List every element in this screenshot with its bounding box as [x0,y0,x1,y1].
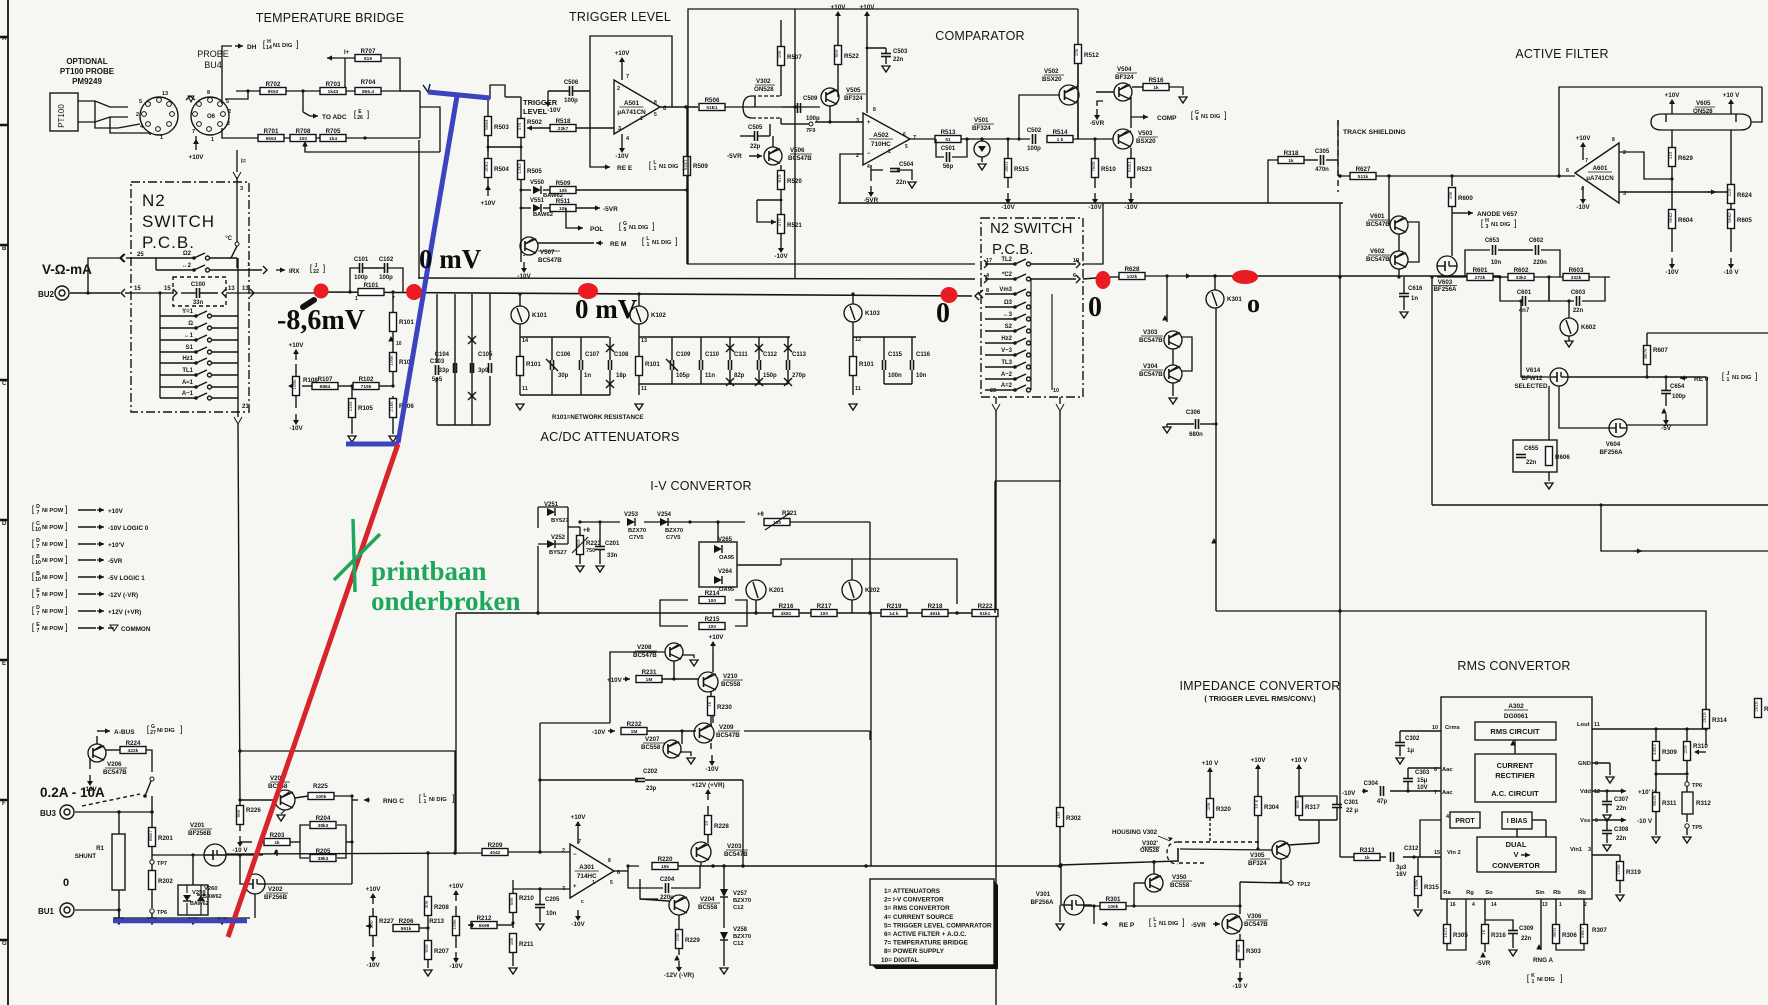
svg-text:15k: 15k [661,864,669,870]
resistor R628 [1119,273,1145,280]
svg-text:BAW62: BAW62 [190,901,209,907]
svg-text:N1 DIG: N1 DIG [273,43,293,49]
svg-text:R222: R222 [978,603,993,610]
wire a501 out [660,106,698,108]
transistor V205 [275,790,295,810]
svg-text:]: ] [323,263,326,273]
zener V258 [720,932,728,940]
svg-text:]: ] [452,793,455,803]
resistor R518 [550,125,576,132]
fet V202 [245,874,265,894]
transistor V602 [1390,251,1408,269]
thermistor R223 [577,536,584,555]
svg-text:C104: C104 [435,352,450,358]
capacitor C301 [1332,804,1342,806]
svg-text:3: 3 [240,186,243,192]
wire af branch end [1767,550,1768,552]
ground r315 [1414,910,1422,916]
resistor R514 [1047,136,1073,143]
svg-text:N1 DIG: N1 DIG [659,164,679,170]
svg-text:R203: R203 [270,832,285,839]
wire k101 toprail [520,336,609,338]
svg-text:C307: C307 [1614,797,1629,803]
svg-text:N1 DIG: N1 DIG [1159,921,1179,927]
svg-text:-10 V: -10 V [1232,983,1248,990]
annotation red trace [228,444,398,937]
ground c307 [1603,815,1611,821]
node j1 [246,89,249,92]
svg-text:7: 7 [37,611,40,617]
svg-text:]: ] [296,39,299,49]
svg-text:R210: R210 [519,895,534,902]
svg-text:33n: 33n [607,553,618,559]
svg-text:R708: R708 [296,128,311,135]
svg-text:]: ] [180,724,183,734]
ground v205 [281,810,285,814]
resistor R523 [1128,159,1135,178]
svg-text:C: C [2,381,7,387]
svg-text:15: 15 [164,286,171,292]
svg-text:[: [ [1481,218,1484,228]
annotation red dot 4 [941,287,958,303]
svg-text:+θ: +θ [757,512,764,518]
wire attn col3 [489,294,491,360]
legend box [872,881,998,969]
svg-text:BY527: BY527 [551,518,569,524]
svg-text:710HC: 710HC [871,141,891,148]
svg-text:R219: R219 [887,603,902,610]
svg-text:+10V: +10V [615,50,631,57]
svg-text:V501: V501 [974,117,989,124]
svg-text:R509: R509 [693,163,708,170]
svg-text:R319: R319 [1626,869,1641,876]
svg-text:BU3: BU3 [40,809,57,818]
svg-text:51E1: 51E1 [1127,161,1133,173]
label anode v657 [1465,212,1473,214]
svg-text:A601: A601 [1593,165,1608,172]
svg-text:V614: V614 [1526,367,1541,374]
box N2 SWITCH PCB right [981,218,1083,397]
wire k102 toprail [639,336,790,338]
svg-text:[: [ [32,605,35,615]
svg-text:-5V: -5V [1661,425,1672,432]
svg-text:590: 590 [1295,800,1301,808]
svg-text:PT100: PT100 [57,104,66,128]
svg-text:V203: V203 [727,843,742,850]
svg-text:5: 5 [905,144,908,150]
capacitor C106x [488,363,490,373]
svg-text:]: ] [65,605,68,615]
svg-text:0: 0 [63,877,69,889]
resistor R101 k1 [517,357,524,376]
wire af left edge [1431,277,1433,505]
svg-text:μA741CN: μA741CN [617,109,646,116]
svg-text:270p: 270p [792,373,806,379]
capacitor C504 [890,168,900,170]
svg-text:2: 2 [562,848,565,854]
svg-text:R303: R303 [1246,948,1261,955]
svg-text:15: 15 [134,286,141,292]
svg-text:+10V: +10V [449,883,465,890]
svg-text:BU1: BU1 [38,907,55,916]
terminal BU3 [60,805,74,819]
svg-text:C205: C205 [545,897,560,903]
svg-text:V605: V605 [1696,100,1711,107]
wire a601 pin3 [1619,191,1727,193]
svg-text:2: 2 [228,109,231,115]
svg-text:N1 DIG: N1 DIG [652,240,672,246]
wire rect arrow [1514,740,1516,754]
svg-text:272k: 272k [1475,275,1486,281]
svg-text:100p: 100p [564,98,578,104]
svg-text:ANODE V657: ANODE V657 [1477,211,1518,218]
ground c302 [1396,758,1404,764]
connector BU4 socket A [140,97,178,135]
svg-text:R228: R228 [714,823,729,830]
svg-text:+10V: +10V [1251,757,1267,764]
svg-text:100: 100 [773,520,781,526]
wire r203 r204 [240,841,252,843]
svg-text:2: 2 [1623,150,1626,156]
svg-text:Ω3: Ω3 [1004,300,1013,306]
svg-text:V253: V253 [624,512,639,518]
svg-text:-10V: -10V [774,253,788,260]
svg-text:7: 7 [37,628,40,634]
wire bus box right [226,292,249,294]
wire comp to shield [1268,160,1279,203]
svg-text:3k01: 3k01 [1004,161,1010,172]
svg-text:5: 5 [654,112,657,118]
fet V301 [1064,895,1084,915]
svg-text:1: 1 [888,149,891,155]
svg-text:R704: R704 [361,79,376,86]
svg-text:5: 5 [610,880,613,886]
transistor V306 [1222,914,1242,934]
svg-text:3= RMS CONVERTOR: 3= RMS CONVERTOR [884,905,950,912]
svg-text:G: G [2,941,7,947]
power -5V c654 [1665,414,1667,420]
svg-text:C12: C12 [733,905,744,911]
tube v302b bar [1177,848,1179,862]
svg-text:V602: V602 [1370,248,1385,255]
power -10V v507 [523,262,525,268]
svg-text:Ω2: Ω2 [183,251,192,257]
resistor R314 [1703,710,1710,729]
svg-text:V604: V604 [1606,441,1621,448]
box PROT [1450,812,1480,828]
capacitor C502 [1032,134,1034,144]
resistor R214 [699,597,725,604]
wire v303 branch [1166,276,1168,322]
capacitor C104 [453,363,455,373]
svg-text:BFW12: BFW12 [1522,375,1544,382]
ground c503 [882,66,890,72]
resistor R624 [1728,185,1735,204]
svg-text:RNG A: RNG A [1533,957,1554,964]
svg-text:TO ADC: TO ADC [322,114,347,121]
wire r210 col [512,880,514,889]
svg-text:6864: 6864 [320,384,331,390]
svg-text:V603: V603 [1438,279,1453,286]
svg-text:8k25: 8k25 [1652,795,1658,806]
terminal BU2 [55,286,69,300]
switch row A~1 [160,397,196,399]
wire sin down [1540,899,1542,950]
capacitor C503 [881,53,891,55]
svg-text:I=: I= [241,159,247,165]
switch row O2 [192,256,196,260]
resistor R522 [835,46,842,65]
resistor R107 [312,383,338,390]
svg-text:R101=NETWORK RESISTANCE: R101=NETWORK RESISTANCE [552,414,644,421]
resistor R708 [290,135,316,142]
annotation red dot 3 [578,283,598,299]
resistor R511 [550,205,576,212]
capacitor C304 [1380,786,1382,796]
svg-text:8: 8 [1595,761,1598,767]
svg-text:13: 13 [641,338,647,344]
svg-text:C506: C506 [564,80,579,86]
trimmer x2 [468,392,476,400]
trimmer c112 [755,344,763,352]
resistor R607 [1644,346,1651,365]
label RE O [1680,377,1687,379]
svg-text:0 mV: 0 mV [575,294,638,324]
capacitor C655 [1516,454,1526,456]
svg-text:10V: 10V [1417,785,1428,791]
svg-text:51k1: 51k1 [980,611,991,617]
wire temp sense down [236,150,238,172]
svg-text:56k2: 56k2 [1668,212,1674,223]
resistor R627 [1350,173,1376,180]
svg-text:BC547B: BC547B [788,155,812,162]
annotation black tick [303,300,314,307]
node r503/r502 join [488,146,521,148]
svg-text:HOUSING V302: HOUSING V302 [1112,829,1158,836]
wire r600 col [1451,176,1453,186]
svg-text:10k: 10k [1448,191,1454,199]
svg-text:[: [ [32,504,35,514]
power -10V r604 [1671,258,1673,264]
annotation red dot 6 [1232,270,1258,284]
svg-text:C653: C653 [1485,238,1500,244]
wire c101 loop [350,268,359,292]
opamp A301 [570,844,614,898]
svg-text:BZX70: BZX70 [628,528,646,534]
svg-text:BY527: BY527 [549,550,567,556]
capacitor C105 [470,363,472,373]
tube V302 [743,96,752,118]
resistor R629 [1669,148,1676,167]
ground v258 [720,968,728,974]
diode V259 [183,895,191,901]
resistor R312 [1682,792,1693,814]
svg-text:R516: R516 [1149,77,1164,84]
svg-text:C113: C113 [792,352,807,358]
svg-text:ON528: ON528 [1693,108,1713,115]
wire ibias dual [1516,829,1518,837]
svg-text:1: 1 [1154,923,1157,929]
svg-text:10 k: 10 k [1254,799,1260,809]
svg-text:V258: V258 [733,927,748,933]
svg-text:R701: R701 [264,128,279,135]
wire v202 drain [265,883,352,885]
wire k301 to rms [1216,611,1706,705]
svg-text:C202: C202 [643,769,658,775]
wire bus entry [70,292,120,294]
wire c655 box [1548,386,1550,440]
svg-text:Vin 2: Vin 2 [1447,850,1461,856]
svg-text:10k: 10k [1074,48,1080,56]
svg-text:TP7: TP7 [157,861,167,867]
resistor R520 [778,171,785,190]
svg-text:7: 7 [913,135,916,141]
power -10V v206 [89,775,91,781]
ground r311 [1652,837,1660,843]
svg-text:C305: C305 [1315,149,1330,155]
wire a601 pin2 [1619,152,1672,179]
wire iv left col [455,613,457,852]
svg-text:R509: R509 [556,180,571,187]
svg-text:OA95: OA95 [719,555,735,561]
wire iv toprow [580,521,620,523]
svg-text:-10V: -10V [366,962,380,969]
svg-text:-5VR: -5VR [1090,120,1105,127]
wire rng c [352,799,358,801]
connector PT100 probe box [50,93,78,131]
svg-text:BC547B: BC547B [538,257,562,264]
wire r518 row [533,127,550,129]
resistor R204 [310,822,336,829]
svg-text:NI POW: NI POW [42,558,64,564]
svg-text:C302: C302 [1405,736,1420,742]
wire r314 r310 [1698,751,1706,753]
svg-text:BC547B: BC547B [1139,337,1163,344]
svg-text:K102: K102 [651,312,666,319]
capacitor C501 [946,152,948,162]
svg-text:-5VR: -5VR [1476,960,1491,967]
svg-text:[: [ [642,236,645,246]
svg-text:R101: R101 [364,282,379,289]
testpoint K602 [1560,318,1578,336]
svg-text:220: 220 [1683,745,1689,753]
svg-text:+10V: +10V [108,508,124,515]
svg-text:BC547B: BC547B [103,769,127,776]
svg-text:BC558: BC558 [721,681,741,688]
capacitor C101 [359,263,361,273]
svg-text:22p: 22p [750,144,761,150]
svg-text:105p: 105p [676,373,690,379]
fet V614 [1550,368,1568,386]
ground v208 [690,660,698,666]
svg-text:-5VR: -5VR [603,206,618,213]
svg-text:R105: R105 [358,405,373,412]
zener V257 [720,889,728,897]
wire v305 e [1280,859,1282,882]
switch row Ω [160,327,196,329]
switch row TL3 [985,366,1015,368]
svg-text:R605: R605 [1737,217,1752,224]
svg-text:R506: R506 [705,97,720,104]
switch row S2 [985,330,1015,332]
svg-text:+10 V: +10 V [1202,760,1219,767]
svg-text:R703: R703 [326,81,341,88]
capacitor C616 [1399,293,1409,295]
diode V254 [660,518,668,526]
wire iv rail [456,612,995,614]
resistor R510 [1092,159,1099,178]
svg-text:R511: R511 [556,198,571,205]
opamp A601 [1575,143,1619,203]
svg-text:+10V: +10V [1576,135,1592,142]
svg-text:R601: R601 [1473,267,1488,274]
resistor R507 [778,47,785,66]
svg-text:−: − [573,852,577,858]
wire tube out [782,106,820,108]
box v265 [699,542,737,587]
svg-text:8: 8 [873,107,876,113]
resistor R227 [370,917,377,936]
svg-text:TEMPERATURE BRIDGE: TEMPERATURE BRIDGE [256,11,405,25]
svg-text:R304: R304 [1264,804,1279,811]
wire tl2 line [687,263,975,265]
svg-text:1: 1 [211,137,214,143]
capacitor C115 [882,360,884,370]
svg-text:100p: 100p [354,275,368,281]
svg-text:]: ] [1182,917,1185,927]
switch row A≈1 [160,386,196,388]
svg-text:R313: R313 [1360,847,1375,854]
wire k102 botrail [639,383,788,385]
svg-text:C602: C602 [1529,238,1544,244]
svg-text:C115: C115 [888,352,903,358]
svg-text:V209: V209 [719,724,734,731]
svg-text:BF256A: BF256A [1030,899,1054,906]
svg-text:10: 10 [35,560,41,566]
power -10V r523 [1130,193,1132,199]
resistor R306 [1553,925,1560,944]
svg-text:NI POW: NI POW [42,609,64,615]
svg-text:V202: V202 [268,886,283,893]
resistor R215 [699,623,725,630]
capacitor C108 [608,360,610,370]
svg-text:GND: GND [1578,761,1591,767]
node j2 [301,89,304,92]
svg-text:E: E [2,661,6,667]
svg-text:23k7: 23k7 [558,126,569,132]
svg-text:R306: R306 [1562,932,1577,939]
svg-text:C301: C301 [1344,800,1359,806]
svg-text:BF256B: BF256B [264,894,288,901]
wire pin10 to impedance [1059,411,1061,866]
svg-text:10k: 10k [559,188,567,194]
svg-text:+12V (+VR): +12V (+VR) [108,609,141,616]
opamp A502 [863,113,910,165]
resistor R502 [518,119,525,138]
resistor R105 [349,399,356,418]
svg-text:R624: R624 [1737,192,1752,199]
svg-text:591k: 591k [401,926,412,932]
svg-text:TP12: TP12 [1297,882,1310,888]
svg-text:R702: R702 [266,81,281,88]
svg-text:V306: V306 [1247,913,1262,920]
svg-text:22n: 22n [1616,836,1627,842]
svg-text:511k: 511k [1358,174,1369,180]
svg-text:22n: 22n [1526,460,1537,466]
svg-text:10: 10 [35,577,41,583]
svg-text:7: 7 [1585,158,1588,164]
testpoint K301 [1206,290,1224,308]
